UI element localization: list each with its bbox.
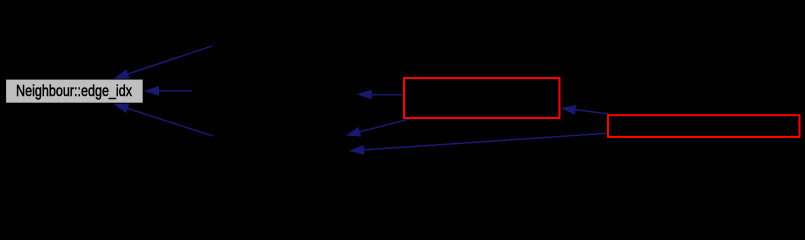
svg-text:Neighbour::edge_idx: Neighbour::edge_idx [16, 83, 132, 100]
